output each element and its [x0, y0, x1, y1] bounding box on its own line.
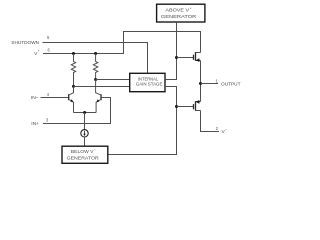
- node top gate junction: [175, 56, 178, 59]
- wire shutdown: pin 5 to internal gain stage top: [43, 43, 148, 74]
- wire emitter rail: [74, 112, 97, 114]
- wire IN- to Q1 base: [41, 97, 69, 99]
- svg-text:ABOVE V: ABOVE V: [165, 8, 190, 13]
- wire V+ rail to top MOSFET drain: [43, 32, 201, 54]
- svg-text:SHUTDOWN: SHUTDOWN: [11, 40, 39, 46]
- pin 1 label OUTPUT: [216, 79, 241, 88]
- wire IN+ to Q2 base: [43, 98, 111, 124]
- resistor R1: [71, 54, 75, 87]
- wire node A to gain stage input: [74, 86, 130, 88]
- node A: R1 bottom / Q1 collector junction: [72, 85, 75, 88]
- current source I1: [81, 130, 88, 137]
- wire M2 drain to output node: [200, 84, 202, 102]
- block: ABOVE V+ GENERATOR: [157, 4, 205, 22]
- pin 6 label V+: [34, 48, 50, 57]
- wire current source to below generator: [84, 137, 86, 146]
- transistor M2 (bottom output MOSFET): [194, 100, 201, 111]
- svg-text:GENERATOR: GENERATOR: [161, 14, 197, 19]
- transistor Q2 (right NPN of input pair): [96, 80, 101, 113]
- svg-text:OUTPUT: OUTPUT: [221, 82, 241, 88]
- node V+ / R1 junction: [72, 52, 75, 55]
- svg-text:−: −: [94, 148, 96, 152]
- pin 2 label V-: [216, 126, 228, 135]
- pin 3 label IN+: [31, 117, 49, 127]
- transistor Q1 (left NPN of input pair): [69, 87, 74, 113]
- node output junction: [199, 82, 202, 85]
- wire node B to gain stage input: [96, 79, 130, 81]
- svg-text:+: +: [190, 6, 192, 10]
- wire M2 source to V- pin: [201, 111, 220, 132]
- wire gain stage bottom output to bottom gate node and below generator: [108, 87, 177, 155]
- block: INTERNAL GAIN STAGE: [130, 73, 165, 91]
- node V+ / R2 junction: [94, 52, 97, 55]
- transistor M1 (top output MOSFET): [194, 52, 201, 62]
- svg-text:−: −: [225, 128, 227, 132]
- wire M1 source to output node: [200, 61, 202, 84]
- svg-text:BELOW V: BELOW V: [71, 149, 95, 154]
- svg-text:IN+: IN+: [31, 121, 39, 127]
- resistor R2: [93, 54, 97, 80]
- wire above generator to top gate node: [176, 22, 178, 58]
- node emitter junction: [83, 111, 86, 114]
- svg-text:+: +: [38, 49, 40, 53]
- svg-text:GAIN STAGE: GAIN STAGE: [136, 82, 163, 87]
- wire top gate line: [177, 57, 194, 59]
- wire output: [201, 83, 219, 85]
- wire gain stage top output to top gate node: [165, 58, 177, 80]
- wire emitter node down to current source: [84, 113, 86, 130]
- svg-text:GENERATOR: GENERATOR: [67, 156, 100, 161]
- node bottom gate junction: [175, 105, 178, 108]
- node B: R2 bottom / Q2 collector junction: [94, 78, 97, 81]
- svg-text:IN−: IN−: [31, 95, 39, 101]
- wire bottom gate line: [177, 106, 194, 108]
- pin 5 label SHUTDOWN: [11, 35, 50, 46]
- block: BELOW V- GENERATOR: [62, 146, 108, 163]
- pin 4 label IN-: [31, 92, 50, 101]
